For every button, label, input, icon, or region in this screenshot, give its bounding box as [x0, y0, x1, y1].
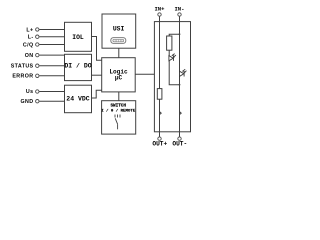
- svg-text:STATUS: STATUS: [11, 63, 34, 69]
- wire DI/DO to Logic uC: [92, 74, 102, 76]
- svg-text:IN+: IN+: [154, 6, 165, 13]
- svg-text:L+: L+: [26, 27, 33, 33]
- LED D1: [169, 54, 176, 61]
- block USI: [102, 14, 136, 48]
- terminal IN+: [158, 13, 161, 16]
- block output stage: [154, 22, 190, 132]
- wire ERROR to DI/DO: [39, 75, 64, 77]
- resistor R2: [157, 89, 162, 100]
- svg-text:OUT+: OUT+: [152, 141, 167, 148]
- wire C/Q to IOL: [39, 44, 64, 46]
- wire R1/LED D1 branch down and right to IN- wire: [169, 50, 179, 84]
- svg-text:GND: GND: [21, 99, 34, 105]
- wire ON to DI/DO: [39, 54, 64, 56]
- terminal OUT-: [178, 137, 181, 140]
- terminal C/Q: [36, 43, 39, 46]
- USI interface connector icon: [111, 38, 126, 44]
- svg-text:L-: L-: [28, 35, 34, 41]
- wire STATUS to DI/DO: [39, 65, 64, 67]
- block DI/DO: [65, 54, 92, 80]
- terminal ERROR: [36, 74, 39, 77]
- block SWITCH I/0/REMOTE: [102, 101, 136, 134]
- wire Us to 24VDC: [39, 91, 64, 93]
- wire R2 down to OUT+: [159, 99, 161, 137]
- wire L- to IOL: [39, 36, 64, 38]
- wire Logic uC to output stage: [135, 73, 154, 75]
- wire IN- down to OUT-: [179, 16, 181, 136]
- contact symbol on OUT- wire: [180, 112, 182, 115]
- svg-text:IOL: IOL: [72, 34, 84, 41]
- svg-text:USI: USI: [113, 26, 125, 33]
- svg-text:Us: Us: [26, 89, 34, 95]
- block 24VDC power supply: [65, 85, 92, 113]
- block IOL: [65, 22, 92, 51]
- selector switch icon S1: [115, 115, 120, 130]
- terminal OUT+: [158, 137, 161, 140]
- svg-text:SWITCH: SWITCH: [110, 103, 126, 108]
- LED D2: [180, 69, 187, 76]
- terminal Us: [36, 90, 39, 93]
- wire GND to 24VDC: [39, 100, 64, 102]
- svg-text:OUT-: OUT-: [172, 141, 187, 148]
- svg-text:ERROR: ERROR: [12, 74, 33, 80]
- svg-text:I / 0 / REMOTE: I / 0 / REMOTE: [101, 108, 136, 113]
- svg-text:ON: ON: [25, 53, 34, 59]
- wire branch IN- to R1 top: [169, 34, 179, 36]
- terminal STATUS: [36, 64, 39, 67]
- wire L+ to IOL: [39, 29, 64, 31]
- terminal L-: [36, 35, 39, 38]
- svg-text:IN-: IN-: [174, 6, 184, 13]
- svg-text:DI / DO: DI / DO: [64, 62, 91, 69]
- wire Logic uC to SWITCH: [118, 92, 120, 101]
- resistor R1: [167, 36, 172, 50]
- wire USI to Logic uC: [118, 48, 120, 58]
- contact symbol on OUT+ wire: [160, 112, 162, 115]
- svg-text:C/Q: C/Q: [23, 42, 34, 48]
- wire IN+ down to R2: [159, 16, 161, 88]
- terminal ON: [36, 53, 39, 56]
- terminal IN-: [178, 13, 181, 16]
- block Logic uC: [102, 58, 136, 92]
- wire Logic uC to 24VDC: [92, 90, 102, 98]
- wire IOL to Logic uC: [92, 37, 102, 61]
- svg-text:24 VDC: 24 VDC: [66, 96, 90, 103]
- junction IN- / R1 branch: [179, 33, 181, 35]
- terminal L+: [36, 28, 39, 31]
- terminal GND: [36, 100, 39, 103]
- svg-text:µC: µC: [115, 74, 123, 81]
- junction IN- / LED D1 branch return: [179, 84, 181, 86]
